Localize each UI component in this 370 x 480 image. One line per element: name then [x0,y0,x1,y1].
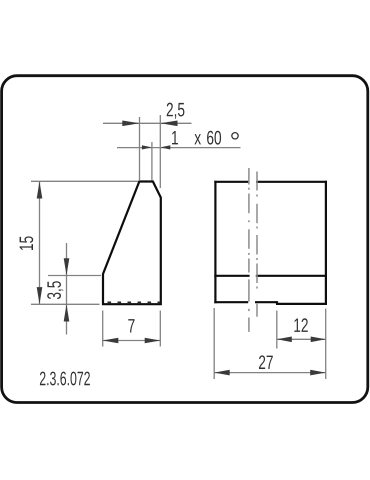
dimension 7 [103,311,161,347]
centerline left [248,168,250,332]
dim 27 arrow right [310,370,326,376]
front view step line right segment [256,275,327,277]
dim 12 arrow right [311,337,326,343]
dimension 15 [20,181,138,304]
chamfer label "x" [194,134,201,144]
chamfer dim extension line [151,142,153,181]
dim 3,5 top extension line [48,275,101,277]
dim 3,5 label [47,281,63,299]
dim 3,5 arrow up [64,304,70,321]
drawing frame [2,76,368,403]
chamfer label "1" [172,131,178,144]
dim 2,5 arrow left-pointing [160,121,177,127]
dimension 27 [214,308,326,379]
dim 7 label [128,319,134,332]
dim 15 top extension line [31,180,138,182]
side view outline [103,182,161,305]
dim 7 dimension line [103,340,161,342]
chamfer degree symbol [232,133,238,139]
dim 27 label [259,355,273,369]
dim 15 bottom extension line [31,303,100,305]
dim 2,5 dimension line [103,122,192,124]
front view upper bottom edge right segment [255,301,277,303]
chamfer dim arrow left-pointing [160,145,170,149]
dim 15 label [20,236,34,250]
dimension 1 x 60deg chamfer [117,131,241,181]
dim 12 right extension line [325,309,327,380]
dim 3,5 dimension line [66,243,68,335]
front view bottom step [276,301,278,304]
dim 2,5 arrow right-pointing [122,121,139,127]
dim 12 dimension line [277,338,326,340]
front view top edge left segment [214,181,248,183]
front view left edge [214,181,216,304]
front view upper bottom edge left segment [214,301,248,303]
dimension 12 [277,309,326,380]
dim 12 arrow left [277,337,292,343]
centerline right [256,172,258,317]
dimension 2,5 [103,103,192,188]
dim 27 arrow left [214,370,230,376]
hidden edge (dashed) in side view [108,301,161,303]
dim 15 dimension line [39,181,41,304]
dim 7 left extension line [102,311,104,347]
front view step line left segment [214,275,249,277]
dim 7 arrow right [145,338,161,344]
dim 2,5 right extension line [159,115,161,188]
dim 27 left extension line [213,308,215,379]
dim 15 arrow up [37,181,43,198]
front view outline [214,181,327,305]
chamfer label "60" [207,131,221,145]
front view top edge right segment [256,181,327,183]
dim 12 label [294,318,307,332]
dim 3,5 arrow down [64,258,70,275]
dim 7 right extension line [159,311,161,347]
dimension 3,5 [47,243,101,335]
part number [40,372,90,386]
chamfer dim arrow right-pointing [142,145,152,149]
front view right edge [325,181,327,305]
front view lower bottom edge [276,303,327,305]
dim 27 dimension line [214,372,326,374]
dim 12 left extension line [276,311,278,349]
dim 7 arrow left [103,338,119,344]
chamfer dim dimension line [117,147,241,149]
dim 2,5 left extension line [139,117,141,180]
dim 2,5 label [167,103,185,119]
dim 15 arrow down [37,287,43,304]
